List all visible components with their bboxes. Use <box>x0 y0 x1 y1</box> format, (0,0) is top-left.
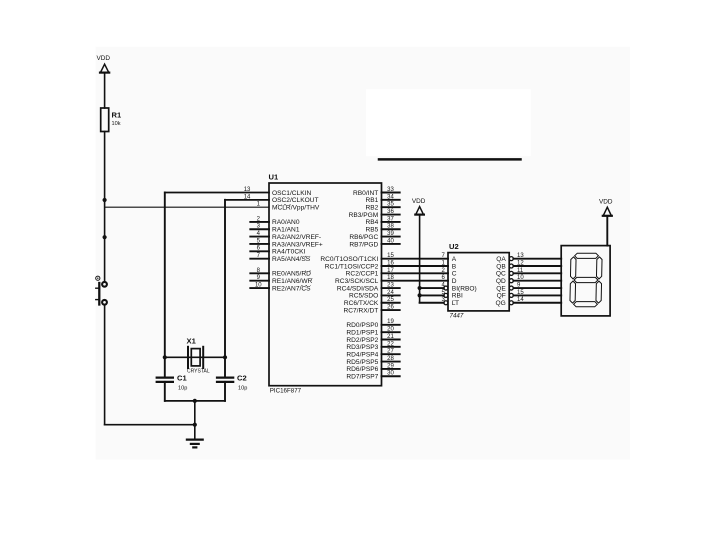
svg-text:RB5: RB5 <box>365 227 378 234</box>
U1 pin 25 <box>344 297 400 307</box>
wire ground stem <box>194 401 196 440</box>
svg-text:QB: QB <box>496 263 506 270</box>
U1 pin 13 <box>244 187 312 197</box>
U1 pin 37 <box>365 216 399 226</box>
U1 pin 22 <box>346 341 399 351</box>
svg-text:RC2/CCP1: RC2/CCP1 <box>346 271 379 278</box>
U1 pin 39 <box>349 231 399 241</box>
U1 pin 4 <box>250 231 321 241</box>
svg-text:A: A <box>452 256 457 263</box>
svg-text:27: 27 <box>387 349 394 355</box>
svg-text:RB0/INT: RB0/INT <box>353 190 378 197</box>
power VDD (left) <box>96 55 110 73</box>
U2 pin 15 (QF) <box>497 290 562 300</box>
capacitor C1 10p <box>157 374 188 392</box>
svg-text:29: 29 <box>387 363 394 369</box>
resistor R1 10k <box>101 108 122 132</box>
wire R1 to button <box>104 132 106 282</box>
svg-text:36: 36 <box>387 209 394 215</box>
wire VDD to R1 <box>104 74 106 108</box>
U1 pin 21 <box>346 334 399 344</box>
wire capacitor rail <box>165 400 225 402</box>
svg-text:RE0/AN5/RD: RE0/AN5/RD <box>272 271 311 278</box>
U1 pin 6 <box>250 246 305 256</box>
svg-text:U2: U2 <box>449 242 459 251</box>
crystal X1 <box>187 337 210 375</box>
svg-text:14: 14 <box>244 194 251 200</box>
svg-text:RC3/SCK/SCL: RC3/SCK/SCL <box>335 278 379 285</box>
U2 pin 9 (QE) <box>496 282 561 292</box>
svg-text:CRYSTAL: CRYSTAL <box>187 369 210 375</box>
wire crystal link <box>165 356 225 358</box>
svg-text:23: 23 <box>387 282 394 288</box>
svg-text:7447: 7447 <box>450 312 464 319</box>
svg-text:RB7/PGD: RB7/PGD <box>349 241 378 248</box>
svg-text:21: 21 <box>387 334 394 340</box>
svg-text:VDD: VDD <box>599 199 613 206</box>
svg-text:26: 26 <box>387 305 394 311</box>
svg-text:RD2/PSP2: RD2/PSP2 <box>346 337 378 344</box>
junction bottom rail <box>193 423 197 427</box>
svg-text:RD5/PSP5: RD5/PSP5 <box>346 359 378 366</box>
svg-text:OSC2/CLKOUT: OSC2/CLKOUT <box>272 197 319 204</box>
svg-text:RC4/SDI/SDA: RC4/SDI/SDA <box>337 285 379 292</box>
U1 pin 38 <box>365 224 399 234</box>
U1 pin 35 <box>365 202 399 212</box>
masked title box <box>366 89 531 159</box>
junction node (MCLR net) <box>103 198 107 202</box>
U1 pin 9 <box>250 275 312 285</box>
svg-text:19: 19 <box>387 319 394 325</box>
svg-text:10p: 10p <box>238 386 247 392</box>
wire U1 pin13 OSC1 (horizontal) <box>165 192 269 194</box>
junction cap rail / ground <box>193 399 197 403</box>
U2 pin 3 (LT) <box>441 297 459 307</box>
svg-text:X1: X1 <box>187 337 197 346</box>
wire VDD to U2 control pins <box>419 216 421 303</box>
svg-text:PIC16F877: PIC16F877 <box>270 388 302 395</box>
svg-text:RE2/AN7/CS: RE2/AN7/CS <box>272 285 311 292</box>
svg-text:RD4/PSP4: RD4/PSP4 <box>346 352 378 359</box>
U1 pin 8 <box>250 268 311 278</box>
U1 pin 40 <box>349 238 399 248</box>
svg-text:C1: C1 <box>177 374 187 383</box>
op U1 PIC16F877 body <box>269 173 382 395</box>
svg-text:38: 38 <box>387 224 394 230</box>
U1 pin 30 <box>346 371 399 381</box>
svg-text:RD0/PSP0: RD0/PSP0 <box>346 322 378 329</box>
svg-text:OSC1/CLKIN: OSC1/CLKIN <box>272 190 311 197</box>
svg-text:35: 35 <box>387 202 394 208</box>
U1 pin 16 <box>325 260 395 270</box>
svg-text:RD3/PSP3: RD3/PSP3 <box>346 344 378 351</box>
push button <box>96 276 107 305</box>
U1 pin 23 <box>337 282 400 292</box>
U2 pin 2 (C) <box>441 268 456 278</box>
svg-text:VDD: VDD <box>412 198 426 205</box>
U1 pin 7 <box>250 253 310 263</box>
svg-text:RBI: RBI <box>452 293 463 300</box>
wire C2 to cap rail <box>224 382 226 401</box>
svg-text:RA3/AN3/VREF+: RA3/AN3/VREF+ <box>272 241 323 248</box>
capacitor C2 10p <box>217 374 247 392</box>
U1 pin 34 <box>365 194 399 204</box>
svg-text:QA: QA <box>496 256 506 263</box>
wire C1 to cap rail <box>164 382 166 401</box>
junction crystal right <box>223 355 227 359</box>
junction RBI <box>418 293 422 297</box>
svg-text:10: 10 <box>255 282 262 288</box>
svg-text:LT: LT <box>452 300 459 307</box>
svg-text:RA0/AN0: RA0/AN0 <box>272 219 300 226</box>
U2 pin 14 (QG) <box>496 297 562 307</box>
svg-text:RB2: RB2 <box>365 205 378 212</box>
U1 pin 29 <box>346 363 399 373</box>
svg-text:RC6/TX/CK: RC6/TX/CK <box>344 300 379 307</box>
U1 pin 5 <box>250 238 323 248</box>
svg-text:R1: R1 <box>112 111 122 120</box>
ground <box>187 440 203 448</box>
svg-text:20: 20 <box>387 327 394 333</box>
svg-text:RB6/PGC: RB6/PGC <box>349 234 378 241</box>
power VDD (right) <box>599 199 613 216</box>
U2 pin 10 (QD) <box>496 275 561 285</box>
svg-text:34: 34 <box>387 194 394 200</box>
schematic page background <box>96 47 630 460</box>
U1 pin 1 <box>257 202 320 212</box>
wire RC0 to U2 <box>382 258 449 260</box>
U1 pin 28 <box>346 356 399 366</box>
U1 pin 18 <box>335 275 394 285</box>
U1 pin 19 <box>346 319 399 329</box>
svg-text:RC0/T1OSO/T1CKI: RC0/T1OSO/T1CKI <box>320 256 378 263</box>
svg-text:30: 30 <box>387 371 394 377</box>
svg-text:37: 37 <box>387 216 394 222</box>
svg-text:33: 33 <box>387 187 394 193</box>
U2 pin 5 (RB) <box>441 290 463 300</box>
wire bottom rail to ground node <box>105 424 195 426</box>
U2 pin 1 (B) <box>441 260 456 270</box>
svg-text:QC: QC <box>496 271 506 278</box>
U2 pin 4 (BI) <box>441 282 476 292</box>
svg-text:22: 22 <box>387 341 394 347</box>
svg-text:RA1/AN1: RA1/AN1 <box>272 227 300 234</box>
svg-text:D: D <box>452 278 457 285</box>
wire to RBI <box>420 294 444 296</box>
svg-text:QE: QE <box>496 285 506 292</box>
U2 pin 11 (QC) <box>496 268 561 278</box>
U1 pin 15 <box>320 253 394 263</box>
U1 pin 2 <box>250 216 300 226</box>
svg-text:10p: 10p <box>178 386 187 392</box>
U1 pin 26 <box>343 305 399 315</box>
svg-text:RE1/AN6/WR: RE1/AN6/WR <box>272 278 313 285</box>
svg-text:RA5/AN4/SS: RA5/AN4/SS <box>272 256 311 263</box>
svg-text:13: 13 <box>244 187 251 193</box>
svg-text:BI(RBO): BI(RBO) <box>452 285 477 292</box>
U1 pin 36 <box>349 209 400 219</box>
U2 pin 13 (QA) <box>496 253 561 263</box>
svg-text:B: B <box>452 263 457 270</box>
7-segment display body <box>561 246 610 316</box>
wire RC2 to U2 <box>382 272 449 274</box>
U1 pin 33 <box>353 187 400 197</box>
wire RC1 to U2 <box>382 265 449 267</box>
svg-text:40: 40 <box>387 238 394 244</box>
wire OSC2 vertical <box>224 200 226 378</box>
U1 pin 3 <box>250 224 300 234</box>
junction node <box>103 235 107 239</box>
junction crystal left <box>163 355 167 359</box>
svg-text:RC7/RX/DT: RC7/RX/DT <box>343 307 378 314</box>
power VDD (middle) <box>412 198 426 215</box>
wire U1 pin14 OSC2 (horizontal) <box>225 199 269 201</box>
svg-text:VDD: VDD <box>96 55 110 62</box>
svg-text:QD: QD <box>496 278 506 285</box>
wire button to bottom rail <box>104 305 106 425</box>
7seg digit <box>570 253 602 307</box>
svg-text:RD6/PSP6: RD6/PSP6 <box>346 366 378 373</box>
svg-text:24: 24 <box>387 290 394 296</box>
svg-text:QF: QF <box>497 293 506 300</box>
wire to BI(RBO) <box>420 287 444 289</box>
U1 pin 14 <box>244 194 319 204</box>
svg-text:RA4/T0CKI: RA4/T0CKI <box>272 249 306 256</box>
U2 pin 7 (A) <box>441 253 456 263</box>
svg-text:39: 39 <box>387 231 394 237</box>
U1 pin 27 <box>346 349 399 359</box>
wire RC3 to U2 <box>382 280 449 282</box>
U2 pin 12 (QB) <box>496 260 561 270</box>
svg-text:10k: 10k <box>112 121 121 127</box>
svg-text:RA2/AN2/VREF-: RA2/AN2/VREF- <box>272 234 321 241</box>
wire OSC1 vertical <box>164 193 166 378</box>
svg-text:RC5/SDO: RC5/SDO <box>349 293 378 300</box>
U1 pin 24 <box>349 290 400 300</box>
svg-text:RB1: RB1 <box>365 197 378 204</box>
U2 pin 6 (D) <box>441 275 456 285</box>
wire VDD to display <box>606 217 608 246</box>
U1 pin 20 <box>346 327 399 337</box>
svg-text:RB4: RB4 <box>365 219 378 226</box>
svg-text:RB3/PGM: RB3/PGM <box>349 212 379 219</box>
decoder U2 7447 body <box>448 242 509 319</box>
junction BI <box>418 286 422 290</box>
wire MCLR to U1 pin 1 <box>105 206 269 208</box>
svg-text:RD7/PSP7: RD7/PSP7 <box>346 374 378 381</box>
svg-text:RC1/T1OSI/CCP2: RC1/T1OSI/CCP2 <box>325 263 379 270</box>
svg-text:28: 28 <box>387 356 394 362</box>
svg-text:RD1/PSP1: RD1/PSP1 <box>346 329 378 336</box>
svg-text:MCLR/Vpp/THV: MCLR/Vpp/THV <box>272 205 320 212</box>
svg-text:C2: C2 <box>237 374 247 383</box>
U1 pin 10 <box>250 282 311 292</box>
U1 pin 17 <box>346 268 395 278</box>
svg-text:25: 25 <box>387 297 394 303</box>
wire to LT <box>420 302 444 304</box>
svg-text:C: C <box>452 271 457 278</box>
svg-text:U1: U1 <box>269 173 279 182</box>
svg-text:QG: QG <box>496 300 506 307</box>
